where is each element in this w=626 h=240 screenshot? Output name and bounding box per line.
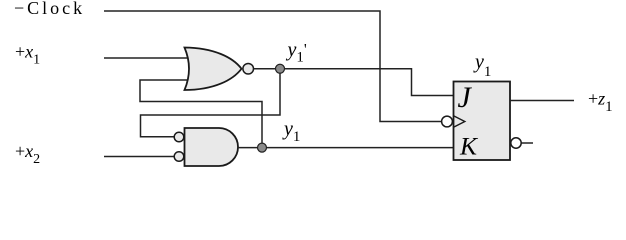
wire clock net: horizontal then down to FF clock input xyxy=(104,11,441,122)
NOR gate G1 output bubble xyxy=(243,63,254,74)
AND gate G2 body (with inverted inputs) xyxy=(185,128,239,166)
AND gate G2 upper input bubble xyxy=(174,132,184,142)
flip-flop Q-bar output bubble xyxy=(511,138,521,148)
svg-text:J: J xyxy=(458,81,473,114)
wire y1 net: AND output to K input of flip-flop xyxy=(238,147,454,149)
wire B: from y1' junction down and left to AND upper bubble xyxy=(141,69,281,137)
wire y1' net: NOR output to J input of flip-flop xyxy=(254,69,454,96)
svg-text:−Clock: −Clock xyxy=(14,0,85,18)
flip-flop U1 body xyxy=(454,82,511,161)
flip-flop clock input bubble xyxy=(442,116,453,127)
wire Q-bar stub xyxy=(521,142,533,144)
wire Q output to +z1 xyxy=(510,100,574,102)
wire +x1 input to NOR gate xyxy=(104,57,188,59)
wire A: feedback from y1 junction up to NOR lower input xyxy=(140,80,262,148)
NOR gate G1 body xyxy=(185,48,242,91)
wire +x2 input to AND gate lower bubble xyxy=(104,156,174,158)
AND gate G2 lower input bubble xyxy=(174,152,184,162)
node y1 junction dot xyxy=(258,143,267,152)
svg-text:K: K xyxy=(459,131,479,160)
flip-flop edge-trigger triangle xyxy=(454,116,465,127)
node y1' junction dot xyxy=(276,64,285,73)
